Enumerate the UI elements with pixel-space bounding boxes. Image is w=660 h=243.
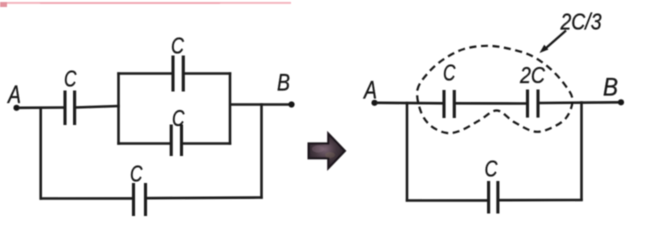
capacitor C4 right plate [144, 183, 147, 216]
wire C1 to box [75, 106, 120, 108]
capacitor C7 left plate [487, 181, 490, 214]
wire C5 to C6 [454, 102, 527, 105]
wire bottom right segment [146, 196, 263, 199]
svg-text:C: C [172, 105, 185, 131]
wire box left vertical [117, 72, 120, 144]
svg-text:A: A [6, 81, 21, 109]
wire box bottom left segment [117, 142, 171, 145]
svg-text:C: C [171, 33, 184, 59]
capacitor C6 right plate [536, 90, 539, 118]
wire right-circuit bottom right segment [498, 199, 583, 202]
svg-text:2C: 2C [519, 62, 545, 88]
wire box top right segment [183, 72, 231, 75]
svg-text:B: B [277, 70, 290, 97]
dashed equivalence blob [417, 46, 572, 133]
capacitor C3 right plate [180, 125, 183, 157]
capacitor C6 left plate [526, 90, 529, 118]
red corner mark [0, 2, 7, 7]
annotation arrow line [546, 31, 567, 49]
pink scan line [5, 2, 291, 4]
wire bottom left segment [40, 197, 134, 200]
svg-text:B: B [603, 74, 618, 102]
capacitor C3 left plate [170, 125, 173, 157]
wire A to C5 [376, 102, 444, 105]
node A terminal dot [13, 105, 19, 111]
svg-text:C: C [443, 60, 456, 86]
wire box bottom right segment [182, 142, 232, 145]
svg-text:C: C [485, 156, 498, 182]
wire right outer drop [260, 103, 263, 198]
annotation arrowhead [540, 45, 549, 53]
wire right-circuit left drop [406, 102, 409, 202]
wire right-circuit right drop [580, 101, 583, 201]
svg-text:C: C [130, 161, 143, 187]
capacitor C4 left plate [132, 183, 135, 216]
node B right terminal dot [618, 99, 624, 105]
capacitor C5 left plate [442, 90, 445, 118]
node B terminal dot [288, 101, 294, 107]
wire box right vertical [229, 72, 232, 144]
wire box top left segment [117, 72, 173, 75]
capacitor C7 right plate [496, 181, 499, 214]
capacitor C1 left plate [63, 91, 66, 126]
wire A to C1 [18, 106, 65, 109]
arrow interior mottling [312, 146, 324, 153]
wire C6 to B [538, 101, 620, 104]
capacitor C5 right plate [453, 90, 456, 118]
node A right terminal dot [371, 100, 377, 106]
transform arrow [309, 134, 345, 169]
wire left outer drop [39, 107, 42, 200]
capacitor C1 right plate [73, 91, 76, 126]
svg-text:C: C [64, 66, 77, 92]
wire right-circuit bottom left segment [406, 199, 489, 202]
capacitor C2 left plate [171, 56, 174, 92]
wire box to B [230, 103, 290, 106]
capacitor C2 right plate [182, 56, 185, 92]
